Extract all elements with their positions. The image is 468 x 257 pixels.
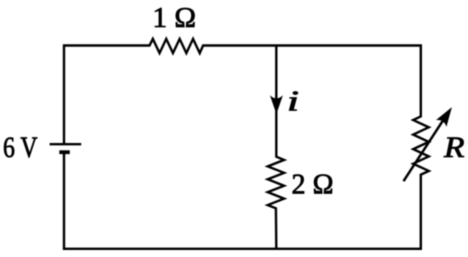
svg-text:R: R: [443, 131, 465, 164]
svg-text:6 V: 6 V: [3, 131, 38, 164]
svg-text:i: i: [287, 87, 299, 118]
svg-text:1 Ω: 1 Ω: [153, 2, 197, 34]
svg-text:2 Ω: 2 Ω: [292, 169, 334, 201]
